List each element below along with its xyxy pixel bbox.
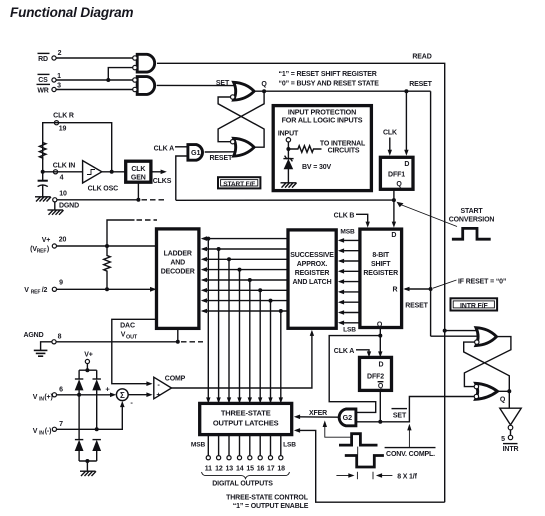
svg-text:V: V [24, 287, 29, 294]
node DAC out [176, 340, 180, 344]
svg-text:Q: Q [261, 81, 267, 88]
svg-text:Functional Diagram: Functional Diagram [10, 5, 133, 20]
wire three-state control from READ line [294, 428, 445, 502]
pin CLK R (pin 19) [53, 113, 74, 133]
svg-text:RESET: RESET [405, 303, 428, 310]
wire RESET branch to intr gate [431, 335, 478, 337]
wire RESET vertical [430, 91, 432, 336]
wire DGND line [57, 199, 138, 201]
svg-text:CLK A: CLK A [334, 348, 354, 355]
waveform XFER pulse [339, 434, 378, 445]
wire DFF1 Q down [393, 189, 395, 200]
wire G1 lower input from CLKS line [176, 156, 188, 200]
svg-text:19: 19 [59, 126, 67, 133]
svg-text:20: 20 [59, 236, 67, 243]
flip-flop DFF2 [360, 357, 392, 390]
svg-text:Q: Q [500, 397, 506, 404]
resistor VREF [104, 246, 111, 289]
svg-text:OUTPUT LATCHES: OUTPUT LATCHES [213, 418, 279, 427]
wire clock line horizontal [176, 199, 394, 201]
svg-text:AND LATCH: AND LATCH [293, 279, 332, 286]
pin CLK IN (pin 4) [53, 162, 76, 181]
pin RD (pin 2) [38, 50, 62, 63]
svg-text:IN: IN [39, 431, 44, 437]
resistor clock R [39, 141, 46, 161]
svg-text:V+: V+ [84, 351, 93, 358]
wire CS branch up to read gate [108, 68, 132, 80]
svg-text:MSB: MSB [340, 229, 355, 236]
wire AGND to ground [41, 342, 52, 350]
svg-text:G1: G1 [191, 148, 200, 157]
svg-text:MSB: MSB [191, 441, 206, 448]
svg-text:Σ: Σ [120, 391, 125, 400]
svg-text:9: 9 [59, 280, 63, 287]
svg-text:13: 13 [226, 465, 234, 472]
svg-text:REF: REF [37, 249, 47, 255]
svg-text:DAC: DAC [120, 323, 135, 330]
box THREE-STATE OUTPUT LATCHES [200, 403, 292, 434]
wire AGND line to ladder bottom [56, 341, 178, 343]
svg-text:BV = 30V: BV = 30V [302, 164, 331, 171]
gate G1 [188, 145, 203, 161]
svg-text:2: 2 [58, 50, 62, 57]
node ground rail [85, 459, 89, 463]
wire node down to cap [42, 172, 44, 181]
wire DAC VOUT to comparator [112, 319, 157, 386]
wire shift Q down [379, 328, 381, 335]
svg-text:DECODER: DECODER [161, 268, 195, 275]
svg-text:LSB: LSB [343, 326, 356, 333]
svg-text:(-): (-) [45, 428, 52, 435]
ground below capacitor [35, 197, 51, 202]
wire start ff Q to bottom gate input (cross) [218, 91, 264, 142]
ground input diodes [80, 471, 96, 476]
wire input down [287, 142, 289, 159]
svg-text:Q: Q [377, 321, 383, 328]
svg-text:XFER: XFER [309, 410, 327, 417]
label XFER pulse annotation arrow [323, 420, 351, 437]
wire intr bottom out to top input (cross) [464, 342, 510, 391]
pin INPUT terminal [286, 138, 290, 142]
svg-text:CIRCUITS: CIRCUITS [328, 147, 360, 154]
svg-text:): ) [47, 246, 49, 253]
wire CLK B into shift register [356, 214, 370, 227]
op-amp INTR inverter [500, 408, 521, 430]
svg-text:“1” = OUTPUT ENABLE: “1” = OUTPUT ENABLE [233, 503, 309, 510]
gate G2 [339, 409, 356, 426]
label IF RESET = "0" [433, 278, 506, 288]
svg-text:START: START [460, 208, 483, 215]
svg-text:SET: SET [393, 413, 407, 420]
wire SAR-shift arrows x9 [338, 238, 360, 325]
svg-text:V: V [33, 394, 38, 401]
svg-text:18: 18 [277, 465, 285, 472]
svg-text:RESET: RESET [409, 81, 432, 88]
wire pulse link [357, 447, 359, 455]
box SUCCESSIVE APPROX REGISTER AND LATCH [288, 230, 336, 328]
node CS branch [106, 78, 110, 82]
svg-text:INTR: INTR [503, 446, 519, 453]
svg-text:INTR F/F: INTR F/F [460, 303, 488, 310]
wire DAC bus line 8 [201, 309, 288, 404]
flip-flop DFF1 [380, 157, 413, 189]
box CLK GEN [126, 161, 151, 182]
ground input protection [281, 183, 297, 188]
pin VREF/2 (pin 9) [24, 280, 63, 296]
svg-text:6: 6 [59, 387, 63, 394]
wire READ branch to intr gate [445, 330, 478, 332]
svg-text:/2: /2 [42, 287, 48, 294]
wire dashed clock stub [142, 199, 166, 201]
label CONV COMPL annotation arrow [407, 424, 411, 448]
node start line junction [392, 198, 396, 202]
wire CLK R rail [43, 123, 112, 172]
svg-text:CONV. COMPL.: CONV. COMPL. [386, 451, 435, 458]
wire READ line to right [157, 63, 445, 502]
svg-text:SET: SET [216, 80, 230, 87]
gate write AND (CS,WR inputs, bubbled) [133, 77, 155, 95]
wire VIN- up into sigma [57, 401, 125, 429]
wire DAC bus line 3 [201, 257, 288, 403]
svg-text:APPROX.: APPROX. [297, 261, 328, 268]
node CLK IN junction [41, 170, 45, 174]
wire branch down to DFF1 D [404, 91, 408, 156]
svg-text:THREE-STATE: THREE-STATE [221, 408, 271, 417]
node V+ rail [85, 368, 89, 372]
wire V+ up and dashed to ladder top [107, 220, 157, 246]
ground DGND [48, 210, 64, 215]
wire G1 output to RESET input [205, 151, 236, 153]
wire G2 output XFER arrow [294, 410, 339, 419]
box LADDER AND DECODER [157, 229, 199, 329]
svg-text:DGND: DGND [59, 203, 79, 210]
svg-text:8 X 1/f: 8 X 1/f [397, 473, 417, 480]
wire VIN+ to sigma [57, 393, 117, 398]
summer sigma [116, 389, 128, 401]
svg-text:CLK IN: CLK IN [53, 162, 76, 169]
svg-text:LADDER: LADDER [164, 250, 192, 257]
pin VIN+ (pin 6) [33, 387, 63, 403]
wire osc to clk gen [102, 171, 126, 173]
op-amp comparator COMP [154, 375, 186, 399]
svg-text:CLK OSC: CLK OSC [88, 186, 119, 193]
wire CLK A to G1 [175, 146, 187, 148]
wire V+ rail diodes [79, 364, 97, 371]
diode clamp up-right [92, 370, 101, 429]
wire VREF/2 to ladder [57, 287, 157, 292]
node G2 set junction [378, 420, 382, 424]
svg-text:CONVERSION: CONVERSION [449, 217, 495, 224]
svg-text:D: D [404, 161, 409, 168]
gate intr ff top OR [475, 328, 497, 346]
node VREF/2 junction [105, 287, 109, 291]
svg-text:“1” = RESET SHIFT REGISTER: “1” = RESET SHIFT REGISTER [279, 71, 377, 78]
wire ground rail diodes [79, 460, 97, 462]
svg-text:10: 10 [59, 190, 67, 197]
node Q start ff [262, 89, 266, 93]
wire clk gen down to clock line [137, 182, 139, 200]
svg-text:11: 11 [205, 465, 212, 472]
gate start ff top OR [231, 82, 255, 100]
op-amp CLK OSC [83, 161, 119, 193]
wire R reset input arrow [403, 287, 432, 292]
svg-text:START F/F: START F/F [223, 181, 255, 188]
wire DAC bus line 6 [201, 288, 288, 403]
svg-text:14: 14 [236, 465, 244, 472]
svg-text:AGND: AGND [23, 332, 43, 339]
wire start ff bottom out to top input (cross) [218, 97, 264, 147]
svg-text:COMP: COMP [165, 375, 186, 382]
wire CLK arrow into DFF1 [388, 138, 392, 156]
node shift Q junction [378, 334, 382, 338]
svg-text:V: V [33, 428, 38, 435]
svg-text:RESET: RESET [210, 155, 233, 162]
wire Q to DFF2 D [378, 336, 382, 358]
svg-text:5: 5 [501, 436, 505, 443]
svg-text:17: 17 [267, 465, 275, 472]
diode clamp up-left [75, 370, 84, 395]
wire dashed DAC stub [181, 341, 203, 343]
svg-text:LSB: LSB [283, 441, 296, 448]
wire intr top out to bottom input (cross) [464, 337, 511, 387]
svg-text:(+): (+) [44, 394, 52, 401]
svg-text:READ: READ [412, 53, 431, 60]
wire shift reg D input [392, 200, 396, 228]
svg-text:G2: G2 [343, 413, 352, 422]
svg-text:TO INTERNAL: TO INTERNAL [320, 140, 366, 147]
svg-text:“0” = BUSY AND RESET STATE: “0” = BUSY AND RESET STATE [279, 81, 380, 88]
wire WR to gate [56, 89, 132, 91]
pin V+ VREF (pin 20) [30, 236, 66, 254]
svg-text:D: D [391, 232, 396, 239]
node intr reset junction [443, 329, 447, 333]
svg-text:SHIFT: SHIFT [371, 261, 391, 268]
wire DAC bus line 2 [201, 247, 288, 404]
wire ladder bottom stub [177, 329, 179, 342]
wire sigma to comparator [128, 392, 152, 397]
svg-text:DFF2: DFF2 [367, 374, 384, 381]
wire CS to gate [56, 79, 132, 81]
waveform start conversion pulse [452, 228, 491, 239]
pin VIN- (pin 7) [33, 421, 63, 437]
svg-text:8: 8 [58, 334, 62, 341]
wire DAC bus line 5 [201, 278, 288, 404]
node DFF1 D branch [404, 89, 408, 93]
svg-text:REGISTER: REGISTER [295, 270, 330, 277]
label SET bar [392, 409, 408, 420]
brace digital outputs [202, 472, 290, 479]
svg-text:INPUT: INPUT [278, 130, 299, 137]
wire Q branch to G2 upper input [329, 336, 380, 413]
svg-text:V: V [121, 332, 126, 339]
wire DFF2 Qbar down [379, 390, 381, 421]
wire Q to inverter [508, 391, 510, 408]
pin DGND (pin 10) [53, 190, 79, 209]
wire down to ground [86, 461, 88, 471]
svg-text:DFF1: DFF1 [388, 172, 405, 179]
svg-text:CLK: CLK [383, 130, 397, 137]
node osc output [110, 170, 114, 174]
svg-text:SUCCESSIVE: SUCCESSIVE [290, 252, 334, 259]
label TO INTERNAL CIRCUITS [320, 140, 366, 154]
svg-text:FOR ALL LOGIC INPUTS: FOR ALL LOGIC INPUTS [282, 116, 363, 125]
svg-text:RD: RD [38, 56, 48, 63]
svg-text:AND: AND [170, 259, 185, 266]
pin CS (pin 1) [38, 73, 62, 84]
svg-text:12: 12 [215, 465, 223, 472]
wire DAC bus line 7 [201, 298, 288, 403]
box 8-BIT SHIFT REGISTER [360, 229, 402, 328]
diode clamp low-right [92, 440, 101, 461]
waveform CONV COMPL pulse [345, 456, 384, 468]
label DAC VOUT [120, 323, 138, 341]
ground AGND (3-bar) [34, 350, 48, 356]
svg-text:DIGITAL OUTPUTS: DIGITAL OUTPUTS [212, 480, 273, 487]
svg-text:CLKS: CLKS [153, 178, 172, 185]
node clock line junction [136, 198, 140, 202]
svg-text:7: 7 [59, 421, 63, 428]
wire G2 inputs [356, 412, 380, 421]
wire CLKS arrow out [151, 170, 172, 186]
svg-text:IF RESET = “0”: IF RESET = “0” [458, 278, 506, 285]
gate start ff bottom OR [231, 138, 255, 156]
wire write gate output to SET [157, 84, 236, 86]
pin AGND (pin 8) [23, 332, 61, 344]
svg-text:V+: V+ [42, 237, 51, 244]
node VIN- junction [95, 427, 99, 431]
wire DAC bus line 4 [201, 267, 288, 403]
svg-text:16: 16 [257, 465, 265, 472]
svg-text:D: D [379, 362, 384, 369]
svg-text:CLK R: CLK R [53, 113, 74, 120]
svg-text:CS: CS [38, 77, 48, 84]
gate intr ff bottom OR [474, 383, 497, 399]
svg-text:R: R [393, 286, 398, 293]
wire CLK IN to osc [43, 171, 83, 173]
wire RD to gate [56, 57, 132, 59]
capacitor [38, 181, 48, 197]
pin WR (pin 3) [37, 83, 62, 95]
svg-text:REGISTER: REGISTER [363, 270, 398, 277]
svg-text:Q: Q [396, 181, 402, 188]
wire CLK A into DFF2 [356, 350, 371, 358]
gate read AND (RD,CS inputs, bubbled) [133, 54, 155, 72]
label CONV. COMPL. [385, 448, 436, 458]
node input junction [286, 147, 290, 151]
diode clamp low-left [75, 395, 84, 461]
wire Q to RESET right [254, 90, 431, 92]
svg-text:1: 1 [57, 73, 61, 80]
svg-text:CLK: CLK [131, 166, 145, 173]
node intr Q [507, 389, 511, 393]
wire output pins 11-18 [205, 435, 285, 472]
box START F/F [218, 177, 260, 188]
label START CONVERSION annotation [397, 202, 495, 227]
node V+ junction [105, 244, 109, 248]
svg-text:OUT: OUT [126, 334, 138, 340]
svg-text:8-BIT: 8-BIT [372, 252, 390, 259]
box INTR F/F [451, 298, 498, 310]
label 8 X 1/f dimension [336, 472, 417, 481]
resistor input protection [288, 146, 321, 153]
svg-text:GEN: GEN [131, 175, 146, 182]
node VIN+ junction [77, 393, 81, 397]
wire V+ line to ladder [57, 245, 157, 247]
svg-text:WR: WR [37, 87, 48, 94]
diode zener BV=30V [283, 156, 293, 183]
svg-text:THREE-STATE CONTROL: THREE-STATE CONTROL [226, 494, 309, 501]
svg-text:REF: REF [31, 290, 41, 296]
svg-text:Q: Q [378, 383, 384, 390]
svg-text:15: 15 [246, 465, 254, 472]
wire SET line to intr ff [380, 397, 474, 422]
svg-text:3: 3 [57, 83, 61, 90]
wire DAC bus line 1 [201, 236, 288, 403]
svg-text:CLK B: CLK B [334, 213, 355, 220]
svg-text:4: 4 [60, 175, 64, 182]
svg-text:CLK A: CLK A [154, 145, 174, 152]
box INPUT PROTECTION [273, 106, 371, 191]
wire comparator output to SAR [172, 330, 315, 388]
svg-text:+: + [156, 392, 160, 399]
wire DGND down [54, 202, 56, 210]
pin INTR (pin 5) [501, 430, 518, 453]
pin V+ input diodes [84, 351, 93, 363]
